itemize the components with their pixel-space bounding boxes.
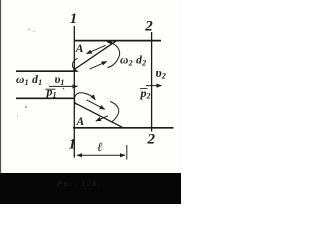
label p2 with overbar xyxy=(140,88,148,90)
scan speck 2 xyxy=(33,31,34,32)
label p1 with overbar xyxy=(45,88,55,90)
black caption bar xyxy=(0,173,181,204)
svg-text:2: 2 xyxy=(147,132,156,148)
upper loop top arrow (points down-left) xyxy=(87,45,106,53)
arrow v1 xyxy=(49,85,78,87)
top wall xyxy=(74,40,161,42)
lower blade diagonal xyxy=(75,103,123,128)
svg-text:1: 1 xyxy=(70,11,77,27)
inlet channel bottom wall xyxy=(16,97,75,99)
paper background xyxy=(0,0,181,204)
scan speck 1 xyxy=(28,29,29,30)
scan speck 3 xyxy=(25,106,27,108)
svg-text:2: 2 xyxy=(144,19,153,35)
svg-text:Рис. 126.: Рис. 126. xyxy=(57,179,101,188)
svg-text:1: 1 xyxy=(69,136,76,152)
upper loop bottom arrow (points up-right) xyxy=(90,61,107,69)
arrow v2/p2 xyxy=(146,85,162,87)
left scan edge line xyxy=(0,0,2,173)
bottom wall xyxy=(73,127,174,129)
svg-text:ℓ: ℓ xyxy=(97,140,102,154)
lower loop mid arrow (points down-right) xyxy=(87,100,105,110)
inlet channel top wall xyxy=(16,70,75,72)
scan speck 4 xyxy=(17,115,18,116)
svg-text:A: A xyxy=(75,43,84,55)
dimension right tick xyxy=(126,145,128,160)
scan speck 5 xyxy=(63,88,65,90)
upper loop right end arc with arrowhead xyxy=(107,42,120,68)
section line 1-1 xyxy=(73,26,75,158)
svg-text:A: A xyxy=(76,116,85,128)
upper loop left end arc xyxy=(72,59,78,72)
lower loop top-left arc with arrowhead (points down-right) xyxy=(75,93,96,105)
lower loop low arrow (points down-left) xyxy=(96,116,108,121)
section line 2-2 xyxy=(151,32,153,132)
dimension line l xyxy=(77,154,125,156)
lower loop right end arc xyxy=(110,102,119,122)
upper blade diagonal xyxy=(74,41,117,70)
